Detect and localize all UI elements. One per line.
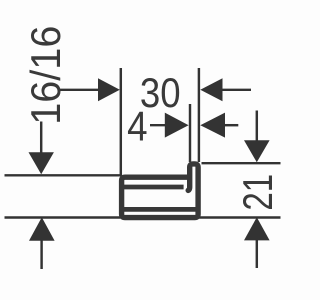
arrowhead right at 4-dim left [165, 113, 189, 138]
extension line profile bottom right horizontal y=217.5 [197, 216, 281, 218]
extension line profile bottom left horizontal y=217.7 [5, 216, 121, 218]
extension line hook top right horizontal y=163.2 [202, 162, 281, 164]
rail profile inner bottom wall line [124, 207, 197, 212]
rail profile inner top wall line [124, 185, 184, 190]
arrowhead right at 30-dim left [98, 78, 120, 101]
svg-text:16/16: 16/16 [22, 26, 69, 125]
dimension line 16/16 lower segment [40, 240, 42, 269]
svg-text:4: 4 [127, 103, 147, 150]
rail profile outer outline with top-right hook stub [122, 164, 199, 218]
arrowhead left at 30-dim right [200, 78, 222, 101]
dimension line 21 lower segment [256, 240, 258, 269]
arrowhead up at 16/16-dim bottom [29, 217, 55, 241]
dimension line 30 right tail [221, 89, 251, 91]
arrowhead left at 4-dim right [200, 113, 225, 138]
extension line profile top left horizontal y=175.3 [5, 174, 121, 176]
extension line right vertical x=198.9 [198, 68, 200, 162]
svg-text:21: 21 [236, 174, 283, 211]
dimension line 4 right tail [223, 124, 238, 126]
dimension line 16/16 upper segment [40, 122, 42, 154]
extension line hook-left vertical x=190 [189, 104, 191, 162]
arrowhead up at 21-dim bottom [244, 217, 270, 240]
dimension line 4 left tail [150, 124, 167, 126]
arrowhead down at 16/16-dim top [29, 152, 54, 174]
arrowhead down at 21-dim top [244, 140, 270, 162]
dimension line 21 upper segment [256, 111, 258, 142]
extension line left vertical x=120.8 [120, 68, 122, 176]
dimension line 30 left tail [59, 89, 100, 91]
